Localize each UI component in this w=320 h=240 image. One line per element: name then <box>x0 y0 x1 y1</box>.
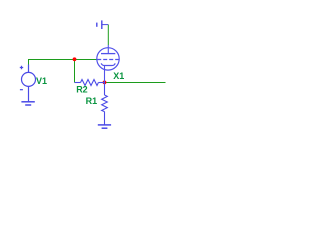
wire V1 top to grid <box>29 60 97 65</box>
svg-text:R2: R2 <box>76 85 88 95</box>
cathode lead <box>104 66 106 83</box>
resistor R1 <box>102 83 108 125</box>
cathode <box>101 63 115 65</box>
wire battery to plate <box>107 25 109 45</box>
node A junction dot <box>73 57 77 61</box>
svg-text:R1: R1 <box>86 96 98 106</box>
ground under R1 <box>98 125 111 128</box>
battery B1 (plate supply bars, top) <box>97 20 109 29</box>
grid dashed line <box>97 59 119 61</box>
wire junction down to R2 <box>74 60 76 83</box>
plate lead <box>107 45 109 54</box>
svg-text:X1: X1 <box>113 71 124 81</box>
plate bar <box>101 53 115 55</box>
resistor R2 <box>75 80 105 86</box>
ground under V1 <box>21 102 34 105</box>
triode X1 <box>97 45 119 83</box>
node X1 junction dot <box>103 81 107 85</box>
wire node X1 output <box>105 82 166 84</box>
svg-text:V1: V1 <box>36 76 47 86</box>
voltage source V1 <box>20 65 36 102</box>
